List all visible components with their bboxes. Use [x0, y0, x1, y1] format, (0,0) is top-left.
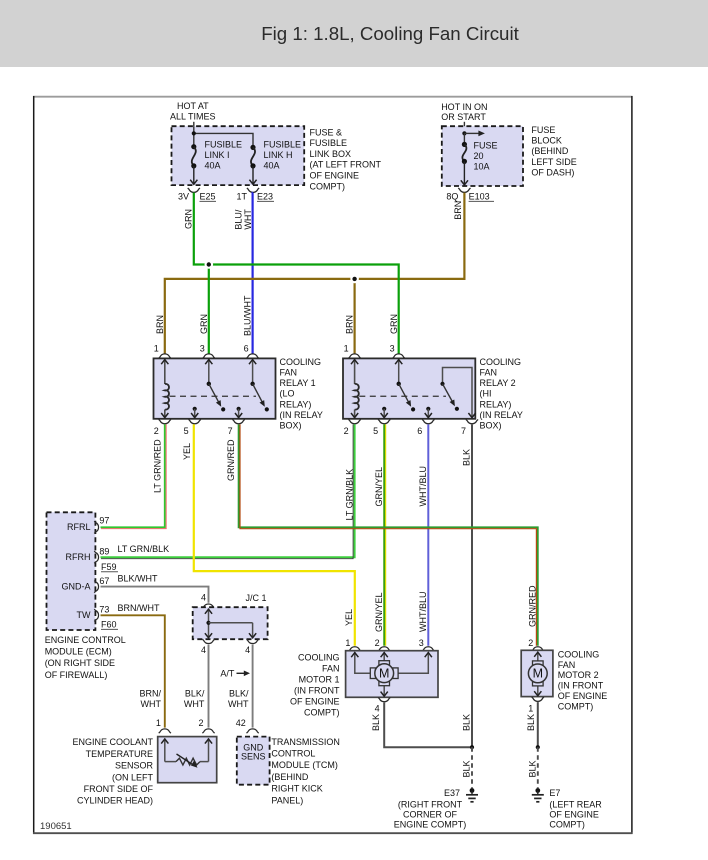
junction connector J/C 1 box [193, 607, 268, 639]
wire BLK motor1 pin4 to ground junction [384, 703, 472, 748]
wire BLK dashed to ground E37 [471, 747, 473, 788]
motor1 M symbol [379, 661, 390, 666]
wire LT GRN/BLK ECM pin89 to relay2 pin2 [101, 424, 355, 557]
svg-text:FAN: FAN [280, 368, 298, 378]
svg-text:FAN: FAN [480, 368, 498, 378]
ground E37 [470, 788, 475, 793]
relay1 coil [164, 360, 166, 384]
svg-text:ENGINE COMPT): ENGINE COMPT) [394, 819, 467, 829]
svg-text:MOTOR 1: MOTOR 1 [299, 674, 340, 684]
svg-text:BRN: BRN [155, 315, 165, 334]
svg-text:LEFT SIDE: LEFT SIDE [531, 157, 576, 167]
svg-text:1: 1 [344, 344, 349, 354]
diagram frame [33, 96, 633, 98]
svg-text:COOLING: COOLING [480, 357, 522, 367]
header bar [0, 0, 708, 67]
relay2 coil [354, 360, 356, 384]
svg-text:7: 7 [461, 426, 466, 436]
ECM connector cups [94, 521, 98, 533]
svg-text:(ON RIGHT SIDE: (ON RIGHT SIDE [45, 658, 115, 668]
junction dot BRN branch [350, 275, 359, 284]
svg-text:40A: 40A [205, 160, 221, 170]
svg-text:COMPT): COMPT) [310, 181, 346, 191]
svg-text:BLK/: BLK/ [185, 689, 205, 699]
cooling fan relay 2 box [343, 358, 475, 418]
motor1 internal wiring [355, 652, 373, 673]
svg-text:OF DASH): OF DASH) [531, 167, 574, 177]
svg-text:67: 67 [99, 576, 109, 586]
svg-text:HOT IN ON: HOT IN ON [441, 102, 487, 112]
svg-text:GND-A: GND-A [62, 582, 91, 592]
svg-text:F59: F59 [101, 562, 117, 572]
svg-text:BOX): BOX) [280, 421, 302, 431]
svg-text:Fig 1: 1.8L, Cooling Fan Circu: Fig 1: 1.8L, Cooling Fan Circuit [261, 23, 519, 44]
svg-text:GRN: GRN [199, 314, 209, 334]
svg-text:BLU/WHT: BLU/WHT [243, 295, 253, 336]
svg-text:PANEL): PANEL) [271, 795, 303, 805]
svg-text:20: 20 [474, 151, 484, 161]
svg-text:3: 3 [390, 344, 395, 354]
svg-text:FAN: FAN [322, 663, 340, 673]
relay1 contact to pin7 [237, 407, 241, 411]
wire YEL relay1 pin5 to motor1 pin1 [194, 424, 355, 645]
svg-text:1: 1 [156, 718, 161, 728]
svg-text:BRN/WHT: BRN/WHT [118, 603, 160, 613]
wire BLK/WHT J/C1 to ECT pin2 [208, 645, 210, 728]
relay2 bottom connector cups [349, 419, 361, 423]
svg-text:FUSE &: FUSE & [310, 127, 343, 137]
svg-text:BLK/WHT: BLK/WHT [118, 574, 159, 584]
TCM top connector cup [247, 729, 259, 733]
svg-text:(LEFT REAR: (LEFT REAR [549, 800, 602, 810]
svg-text:RFRL: RFRL [67, 522, 91, 532]
svg-text:J/C 1: J/C 1 [246, 593, 267, 603]
svg-text:4: 4 [375, 703, 380, 713]
svg-text:F60: F60 [101, 619, 117, 629]
svg-text:6: 6 [417, 426, 422, 436]
svg-text:BRN: BRN [453, 201, 463, 220]
svg-text:RELAY): RELAY) [280, 399, 312, 409]
svg-text:BRN: BRN [345, 315, 355, 334]
junction dot fuse feed [462, 131, 466, 135]
svg-text:5: 5 [184, 426, 189, 436]
svg-text:E7: E7 [549, 788, 560, 798]
wire BLU/WHT from E23 to relay1 pin6 [252, 193, 255, 354]
svg-text:FRONT SIDE OF: FRONT SIDE OF [84, 784, 154, 794]
svg-text:4: 4 [245, 645, 250, 655]
svg-text:RFRH: RFRH [66, 552, 91, 562]
svg-text:2: 2 [528, 638, 533, 648]
svg-text:RELAY 1: RELAY 1 [280, 378, 316, 388]
relay1 switch from pin6 [252, 360, 254, 384]
svg-text:OF FIREWALL): OF FIREWALL) [45, 670, 108, 680]
wire BLK/WHT J/C1 to TCM pin42 [252, 645, 254, 728]
svg-text:RELAY): RELAY) [480, 399, 512, 409]
svg-text:OF ENGINE: OF ENGINE [549, 810, 599, 820]
wire BRN/WHT ECM pin73 to ECT sensor [101, 615, 165, 727]
svg-text:YEL: YEL [182, 443, 192, 460]
svg-text:COMPT): COMPT) [549, 819, 585, 829]
fuse block box [442, 126, 523, 186]
svg-text:LT GRN/BLK: LT GRN/BLK [118, 544, 170, 554]
svg-text:7: 7 [228, 426, 233, 436]
svg-text:(IN RELAY: (IN RELAY [280, 410, 323, 420]
svg-text:BLK: BLK [527, 760, 537, 777]
motor2 M symbol [533, 661, 544, 666]
svg-text:CONTROL: CONTROL [271, 749, 315, 759]
fuse & fusible link box [172, 126, 305, 185]
transmission control module box [237, 737, 270, 785]
svg-text:LT GRN/RED: LT GRN/RED [153, 439, 163, 493]
ECT top connector cups [159, 729, 171, 733]
svg-text:(IN FRONT: (IN FRONT [558, 681, 604, 691]
svg-text:(IN FRONT: (IN FRONT [294, 685, 340, 695]
svg-text:89: 89 [99, 547, 109, 557]
svg-text:(HI: (HI [480, 389, 492, 399]
fusible link I symbol [191, 144, 196, 149]
svg-text:BOX): BOX) [480, 421, 502, 431]
svg-text:3: 3 [200, 344, 205, 354]
svg-text:BLK: BLK [462, 449, 472, 466]
J/C1 top connector cup [202, 604, 214, 608]
motor2 internal wiring [537, 652, 539, 662]
svg-text:GRN/RED: GRN/RED [527, 585, 537, 627]
svg-text:GRN: GRN [389, 314, 399, 334]
wire GRN from E25 with branch to relay pins 3 [194, 193, 399, 354]
svg-text:HOT AT: HOT AT [177, 101, 209, 111]
svg-text:M: M [533, 667, 543, 681]
svg-text:TRANSMISSION: TRANSMISSION [271, 737, 340, 747]
relay1 top connector cups [159, 354, 171, 358]
svg-text:COOLING: COOLING [558, 649, 600, 659]
relay1 mechanical link dashed [170, 395, 257, 397]
svg-text:TW: TW [77, 610, 91, 620]
connector E25 cup [188, 188, 200, 192]
svg-text:(RIGHT FRONT: (RIGHT FRONT [398, 800, 463, 810]
junction dot BLK E37 [470, 745, 474, 749]
wire GRN/RED relay1 pin7 to motor2 pin2 [239, 424, 538, 645]
ECT internal wiring [164, 738, 166, 761]
svg-text:4: 4 [201, 645, 206, 655]
svg-text:4: 4 [201, 593, 206, 603]
svg-text:BLK: BLK [462, 760, 472, 777]
wire BLK dashed to ground E7 [537, 747, 539, 788]
relay1 switch from pin3 [208, 360, 210, 384]
svg-text:LINK BOX: LINK BOX [310, 149, 352, 159]
svg-text:CYLINDER HEAD): CYLINDER HEAD) [77, 796, 153, 806]
svg-text:COOLING: COOLING [298, 652, 340, 662]
wire BLK/WHT ECM pin67 to J/C1 [101, 587, 209, 603]
svg-text:BRN/: BRN/ [139, 689, 161, 699]
motor2 top connector cup [532, 647, 544, 651]
svg-text:FUSIBLE: FUSIBLE [264, 139, 302, 149]
svg-text:73: 73 [99, 605, 109, 615]
svg-text:(LO: (LO [280, 389, 295, 399]
svg-text:OR START: OR START [441, 112, 486, 122]
internal feed wire fusible box [193, 126, 195, 147]
svg-text:2: 2 [344, 426, 349, 436]
svg-text:E37: E37 [444, 788, 460, 798]
svg-text:LINK I: LINK I [205, 150, 230, 160]
svg-text:RIGHT KICK: RIGHT KICK [271, 784, 322, 794]
svg-text:WHT: WHT [184, 699, 205, 709]
svg-text:CORNER OF: CORNER OF [403, 810, 458, 820]
svg-text:MODULE (TCM): MODULE (TCM) [271, 760, 338, 770]
svg-text:10A: 10A [474, 162, 490, 172]
svg-text:(ON LEFT: (ON LEFT [112, 772, 154, 782]
svg-text:E103: E103 [469, 191, 490, 201]
svg-text:LT GRN/BLK: LT GRN/BLK [344, 469, 354, 521]
svg-text:GRN/RED: GRN/RED [226, 439, 236, 481]
svg-text:3: 3 [419, 638, 424, 648]
svg-text:BLK/: BLK/ [229, 689, 249, 699]
svg-text:GRN/YEL: GRN/YEL [374, 467, 384, 507]
J/C1 internal wiring [208, 609, 210, 638]
svg-text:(BEHIND: (BEHIND [271, 772, 309, 782]
svg-text:ENGINE COOLANT: ENGINE COOLANT [72, 737, 153, 747]
relay2 contact to pin6 [426, 407, 430, 411]
svg-text:COOLING: COOLING [280, 357, 322, 367]
svg-text:ENGINE CONTROL: ENGINE CONTROL [45, 635, 126, 645]
svg-text:FAN: FAN [558, 660, 576, 670]
svg-text:(AT LEFT FRONT: (AT LEFT FRONT [310, 160, 382, 170]
relay2 mechanical link dashed [359, 395, 446, 397]
svg-text:BLU/: BLU/ [234, 209, 244, 230]
svg-text:WHT: WHT [228, 699, 249, 709]
svg-text:ALL TIMES: ALL TIMES [170, 112, 216, 122]
wire WHT/BLU relay2 pin6 to motor1 pin3 [427, 424, 429, 645]
svg-text:(BEHIND: (BEHIND [531, 146, 569, 156]
svg-text:2: 2 [375, 638, 380, 648]
svg-text:YEL: YEL [344, 609, 354, 626]
relay2 switch from pin3 [398, 360, 400, 384]
svg-text:A/T: A/T [220, 669, 235, 679]
wire stub into fusible link box [193, 122, 195, 127]
svg-text:COMPT): COMPT) [558, 701, 594, 711]
svg-text:GRN/YEL: GRN/YEL [374, 592, 384, 632]
svg-text:WHT/BLU: WHT/BLU [418, 466, 428, 507]
svg-text:M: M [379, 667, 389, 681]
junction dot fusible box feed [192, 131, 196, 135]
ECT thermistor resistor [176, 758, 200, 765]
svg-text:MODULE (ECM): MODULE (ECM) [45, 647, 112, 657]
motor1 bottom connector cup [378, 697, 390, 701]
cooling fan motor 2 box [521, 650, 553, 696]
wire BLK motor2 pin1 down [537, 702, 539, 747]
svg-text:OF ENGINE: OF ENGINE [290, 696, 340, 706]
cooling fan motor 1 box [346, 651, 438, 698]
svg-text:(IN RELAY: (IN RELAY [480, 410, 523, 420]
cooling fan relay 1 box [154, 358, 276, 418]
fusible link H symbol [250, 145, 255, 150]
svg-text:SENS: SENS [241, 752, 266, 762]
svg-text:FUSIBLE: FUSIBLE [310, 138, 348, 148]
ECT thermistor arrow [177, 754, 195, 766]
svg-text:BLK: BLK [462, 714, 472, 731]
svg-text:TEMPERATURE: TEMPERATURE [86, 749, 153, 759]
svg-text:3V: 3V [178, 191, 189, 201]
svg-text:1: 1 [154, 344, 159, 354]
wire LT GRN/RED ECM pin97 to relay1 pin2 [101, 424, 165, 527]
svg-text:BLK: BLK [371, 714, 381, 731]
engine control module box [47, 512, 96, 630]
svg-text:42: 42 [236, 718, 246, 728]
ground E7 [535, 788, 540, 793]
svg-text:GRN: GRN [184, 209, 194, 229]
svg-text:BLK: BLK [526, 714, 536, 731]
relay2 contact to pin5 [382, 407, 386, 411]
svg-text:RELAY 2: RELAY 2 [480, 378, 516, 388]
J/C1 bottom connector cups [202, 639, 214, 643]
engine coolant temperature sensor box [158, 737, 217, 783]
fuse 20 symbol [462, 142, 467, 147]
relay2 switch from pin7 (L-shaped feed) [443, 368, 473, 418]
svg-text:190651: 190651 [40, 821, 72, 832]
svg-text:1: 1 [528, 703, 533, 713]
svg-text:COMPT): COMPT) [304, 707, 340, 717]
svg-text:OF ENGINE: OF ENGINE [558, 691, 608, 701]
svg-text:FUSIBLE: FUSIBLE [205, 139, 243, 149]
wire GRN/YEL relay2 pin5 to motor1 pin2 [383, 424, 385, 645]
svg-text:1: 1 [345, 638, 350, 648]
svg-text:E23: E23 [257, 191, 273, 201]
relay2 top connector cups [349, 354, 361, 358]
wire BRN from E103 with branch to relay pins 1 [165, 193, 465, 354]
connector E23 cup [247, 188, 259, 192]
svg-text:WHT/BLU: WHT/BLU [418, 592, 428, 633]
svg-text:OF ENGINE: OF ENGINE [310, 171, 360, 181]
svg-text:WHT: WHT [141, 699, 162, 709]
svg-text:1T: 1T [236, 191, 247, 201]
motor2 bottom connector cup [532, 697, 544, 701]
svg-text:LINK H: LINK H [264, 150, 293, 160]
svg-text:FUSE: FUSE [474, 140, 498, 150]
svg-text:FUSE: FUSE [531, 125, 555, 135]
connector E103 cup [458, 188, 470, 192]
svg-text:BLOCK: BLOCK [531, 136, 562, 146]
svg-text:5: 5 [373, 426, 378, 436]
relay1 contact to pin5 [193, 407, 197, 411]
junction dot BLK E7 [536, 745, 540, 749]
svg-text:2: 2 [154, 426, 159, 436]
svg-text:2: 2 [198, 718, 203, 728]
svg-text:8Q: 8Q [446, 191, 458, 201]
svg-text:6: 6 [244, 344, 249, 354]
wire stub into fuse block [463, 122, 465, 127]
svg-text:MOTOR 2: MOTOR 2 [558, 670, 599, 680]
svg-text:97: 97 [99, 516, 109, 526]
svg-text:SENSOR: SENSOR [115, 761, 154, 771]
svg-text:E25: E25 [200, 191, 216, 201]
svg-text:WHT: WHT [243, 209, 253, 230]
svg-text:40A: 40A [264, 160, 280, 170]
motor1 top connector cups [349, 647, 361, 651]
fuse feed arrow [463, 133, 465, 144]
junction dot GRN branch [205, 260, 214, 269]
wire BLK relay2 pin7 down [471, 424, 473, 747]
relay1 bottom connector cups [159, 419, 171, 423]
